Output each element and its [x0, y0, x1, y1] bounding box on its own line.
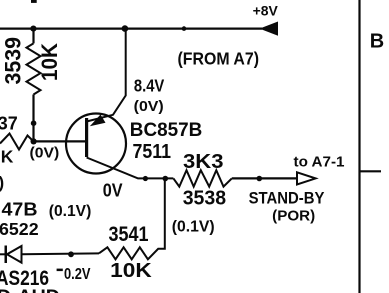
svg-text:STAND-BY: STAND-BY — [249, 189, 325, 207]
svg-text:7511: 7511 — [133, 141, 172, 163]
svg-text:3539: 3539 — [1, 37, 26, 85]
svg-text:8.4V: 8.4V — [134, 75, 165, 95]
svg-text:0.2V: 0.2V — [64, 266, 91, 283]
svg-text:6522: 6522 — [0, 219, 39, 239]
svg-text:(0V): (0V) — [134, 98, 164, 115]
svg-text:(POR): (POR) — [272, 208, 315, 225]
svg-text:37: 37 — [0, 114, 18, 134]
svg-text:(0V): (0V) — [30, 145, 60, 162]
svg-text:3K3: 3K3 — [183, 151, 224, 173]
svg-text:0V: 0V — [103, 180, 123, 200]
svg-text:3541: 3541 — [109, 223, 149, 246]
svg-text:B: B — [370, 31, 384, 53]
svg-text:to A7-1: to A7-1 — [294, 153, 346, 170]
svg-text:0K: 0K — [0, 146, 14, 166]
svg-text:BC857B: BC857B — [130, 120, 203, 141]
svg-text:D-AUD: D-AUD — [0, 286, 60, 293]
svg-text:47B: 47B — [2, 200, 38, 220]
svg-text:(0.1V): (0.1V) — [172, 219, 215, 236]
svg-text:3538: 3538 — [183, 188, 226, 210]
svg-text:+8V: +8V — [253, 3, 278, 18]
svg-text:10K: 10K — [37, 42, 62, 81]
svg-text:10K: 10K — [110, 260, 152, 282]
svg-text:): ) — [0, 173, 4, 192]
svg-text:(FROM A7): (FROM A7) — [178, 49, 260, 69]
svg-text:(0.1V): (0.1V) — [49, 203, 92, 220]
